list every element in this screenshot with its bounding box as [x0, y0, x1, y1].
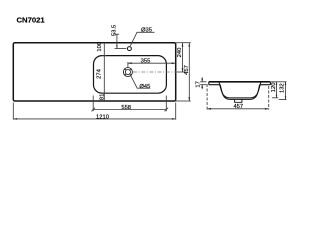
- svg-text:240: 240: [177, 48, 183, 58]
- svg-text:274: 274: [97, 68, 103, 78]
- svg-text:355: 355: [141, 58, 151, 64]
- svg-text:53.5: 53.5: [112, 25, 118, 36]
- svg-text:Ø45: Ø45: [139, 84, 150, 90]
- svg-text:CN7021: CN7021: [17, 16, 46, 25]
- svg-text:457: 457: [184, 65, 190, 75]
- svg-text:120: 120: [271, 83, 277, 93]
- svg-text:558: 558: [121, 105, 131, 111]
- svg-text:100: 100: [97, 42, 103, 52]
- svg-text:132: 132: [280, 83, 286, 93]
- svg-text:81: 81: [100, 94, 106, 100]
- svg-text:17: 17: [196, 81, 202, 87]
- svg-text:457: 457: [233, 104, 243, 110]
- svg-text:Ø35: Ø35: [141, 27, 152, 33]
- svg-text:1210: 1210: [96, 115, 109, 121]
